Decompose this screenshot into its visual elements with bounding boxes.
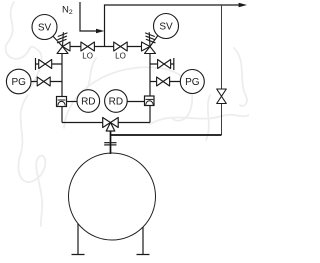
instrument PG right — [180, 70, 204, 94]
tank left leg — [72, 224, 85, 255]
valve LO1 — [81, 42, 95, 51]
bottom return line — [111, 134, 222, 136]
tank nozzle line — [110, 131, 112, 154]
flange tick lower — [104, 144, 116, 146]
svg-text:PG: PG — [11, 77, 26, 88]
left vent line — [36, 63, 63, 65]
RD holder right — [145, 96, 155, 106]
riser valve — [217, 89, 227, 104]
svg-text:SV: SV — [38, 23, 52, 34]
right vent valve — [158, 60, 171, 69]
left PG line — [31, 81, 62, 83]
svg-text:RD: RD — [81, 97, 95, 108]
right branch vertical — [149, 54, 151, 123]
3-way valve — [103, 118, 119, 132]
svg-text:SV: SV — [159, 22, 173, 33]
rupture disc RD right — [105, 90, 128, 113]
instrument PG left — [6, 69, 31, 94]
right relief valve PSV — [142, 42, 156, 54]
left PSV spring — [57, 33, 67, 47]
right PG line — [150, 81, 180, 83]
left branch vertical — [61, 54, 63, 123]
svg-text:LO: LO — [115, 52, 126, 61]
left vent valve — [39, 60, 52, 69]
valve LO2 — [114, 42, 128, 51]
N2 feed line — [80, 2, 98, 31]
right PSV spring — [146, 33, 156, 47]
left PG valve — [37, 77, 50, 86]
N2 feed arrow — [96, 29, 104, 33]
watermark (decorative) — [6, 2, 249, 226]
right riser lower — [221, 104, 223, 136]
rupture disc RD left — [77, 90, 100, 113]
tank right leg — [137, 227, 150, 255]
right RD connector — [127, 101, 145, 103]
right riser upper — [221, 5, 223, 89]
RD manifold line — [62, 122, 150, 124]
top header line — [105, 5, 240, 47]
left vent cap tick — [35, 58, 37, 70]
flange tick upper — [104, 142, 116, 144]
svg-text:RD: RD — [109, 97, 123, 108]
right vent line — [150, 63, 174, 65]
right SV link line — [150, 36, 158, 47]
left relief valve PSV — [57, 42, 70, 54]
right PG valve — [157, 77, 170, 86]
svg-text:PG: PG — [185, 77, 200, 88]
instrument SV right — [154, 14, 179, 39]
RD holder left — [57, 97, 67, 107]
left SV link line — [53, 36, 63, 46]
header arrow — [239, 3, 247, 7]
svg-text:LO: LO — [82, 52, 93, 61]
main manifold pipe — [70, 46, 142, 48]
right vent cap tick — [173, 58, 175, 70]
tank vessel — [69, 153, 156, 240]
left RD connector — [67, 101, 78, 103]
instrument SV left — [32, 15, 57, 40]
